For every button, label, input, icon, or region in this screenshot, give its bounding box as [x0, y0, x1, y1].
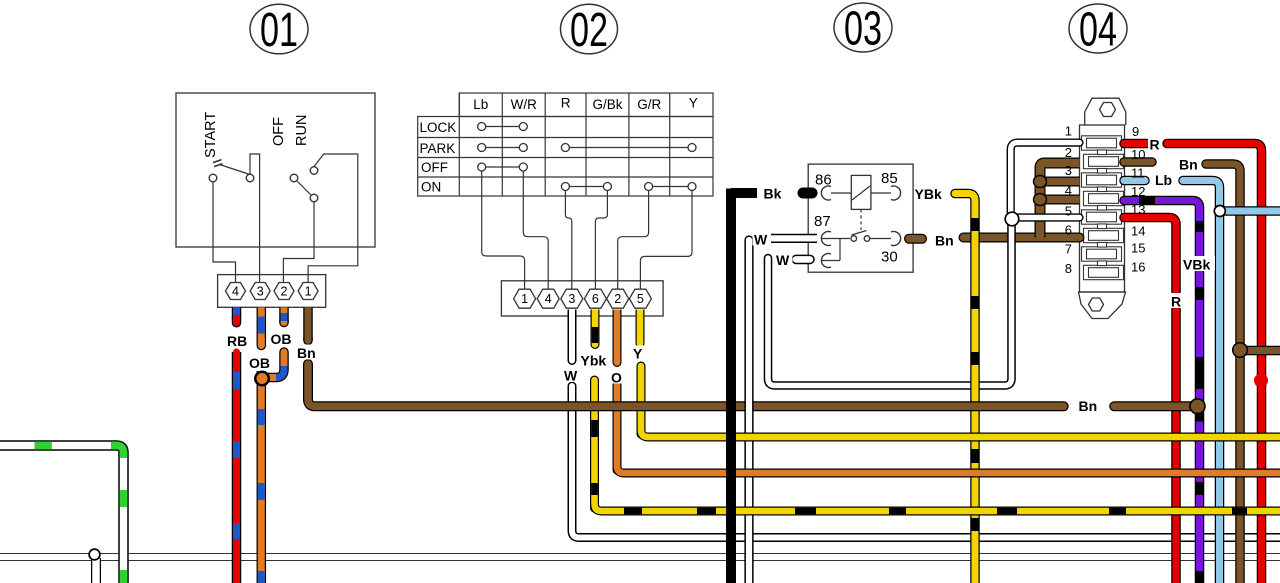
svg-text:W: W	[564, 368, 578, 384]
svg-text:4: 4	[232, 285, 239, 299]
svg-text:1: 1	[1065, 124, 1072, 139]
svg-text:W: W	[754, 232, 768, 248]
svg-text:13: 13	[1131, 202, 1145, 217]
svg-text:Lb: Lb	[473, 97, 488, 112]
svg-text:3: 3	[1065, 163, 1072, 178]
svg-text:4: 4	[545, 292, 552, 306]
svg-text:2: 2	[281, 285, 288, 299]
svg-text:11: 11	[1131, 166, 1145, 181]
svg-text:8: 8	[1065, 261, 1072, 276]
svg-text:RB: RB	[227, 333, 247, 349]
svg-text:10: 10	[1131, 147, 1145, 162]
svg-text:Bk: Bk	[764, 186, 782, 202]
svg-text:OB: OB	[249, 355, 270, 371]
svg-text:6: 6	[1065, 223, 1072, 238]
svg-text:Bn: Bn	[1179, 157, 1198, 173]
svg-text:OFF: OFF	[271, 117, 287, 146]
svg-text:04: 04	[1079, 4, 1117, 57]
svg-text:OB: OB	[271, 331, 292, 347]
svg-text:G/Bk: G/Bk	[592, 97, 622, 112]
svg-text:03: 03	[844, 3, 882, 56]
svg-text:YBk: YBk	[915, 186, 942, 202]
svg-text:5: 5	[637, 292, 644, 306]
svg-text:R: R	[561, 96, 571, 111]
svg-text:4: 4	[1065, 183, 1072, 198]
svg-text:30: 30	[881, 249, 898, 266]
svg-text:ON: ON	[421, 180, 441, 195]
svg-text:9: 9	[1132, 124, 1139, 139]
svg-text:Bn: Bn	[935, 233, 954, 249]
svg-text:G/R: G/R	[637, 97, 661, 112]
svg-text:15: 15	[1131, 241, 1145, 256]
svg-text:01: 01	[260, 4, 298, 57]
svg-text:3: 3	[257, 285, 264, 299]
svg-text:7: 7	[1065, 242, 1072, 257]
svg-text:START: START	[203, 112, 219, 158]
svg-text:Ybk: Ybk	[581, 353, 607, 369]
svg-text:OFF: OFF	[421, 160, 448, 175]
svg-text:W: W	[776, 252, 790, 268]
svg-text:02: 02	[570, 4, 608, 57]
svg-text:2: 2	[614, 292, 621, 306]
svg-text:W/R: W/R	[511, 97, 537, 112]
svg-text:87: 87	[814, 213, 831, 230]
svg-text:16: 16	[1131, 260, 1145, 275]
svg-text:R: R	[1171, 294, 1181, 310]
svg-text:PARK: PARK	[420, 141, 456, 156]
svg-text:O: O	[611, 370, 622, 386]
svg-text:5: 5	[1065, 204, 1072, 219]
svg-text:Bn: Bn	[1079, 398, 1098, 414]
svg-text:2: 2	[1065, 145, 1072, 160]
svg-text:Y: Y	[689, 96, 698, 111]
svg-text:Lb: Lb	[1155, 172, 1172, 188]
svg-text:12: 12	[1131, 184, 1145, 199]
svg-text:LOCK: LOCK	[420, 120, 457, 135]
svg-text:86: 86	[815, 172, 832, 189]
svg-text:Bn: Bn	[297, 345, 316, 361]
svg-text:6: 6	[592, 292, 599, 306]
svg-text:85: 85	[881, 170, 898, 187]
svg-text:RUN: RUN	[294, 115, 310, 146]
svg-text:VBk: VBk	[1183, 257, 1210, 273]
svg-text:Y: Y	[633, 346, 643, 362]
svg-text:R: R	[1150, 137, 1160, 153]
svg-text:14: 14	[1131, 224, 1145, 239]
svg-text:1: 1	[305, 285, 312, 299]
svg-text:3: 3	[568, 292, 575, 306]
svg-text:1: 1	[521, 292, 528, 306]
